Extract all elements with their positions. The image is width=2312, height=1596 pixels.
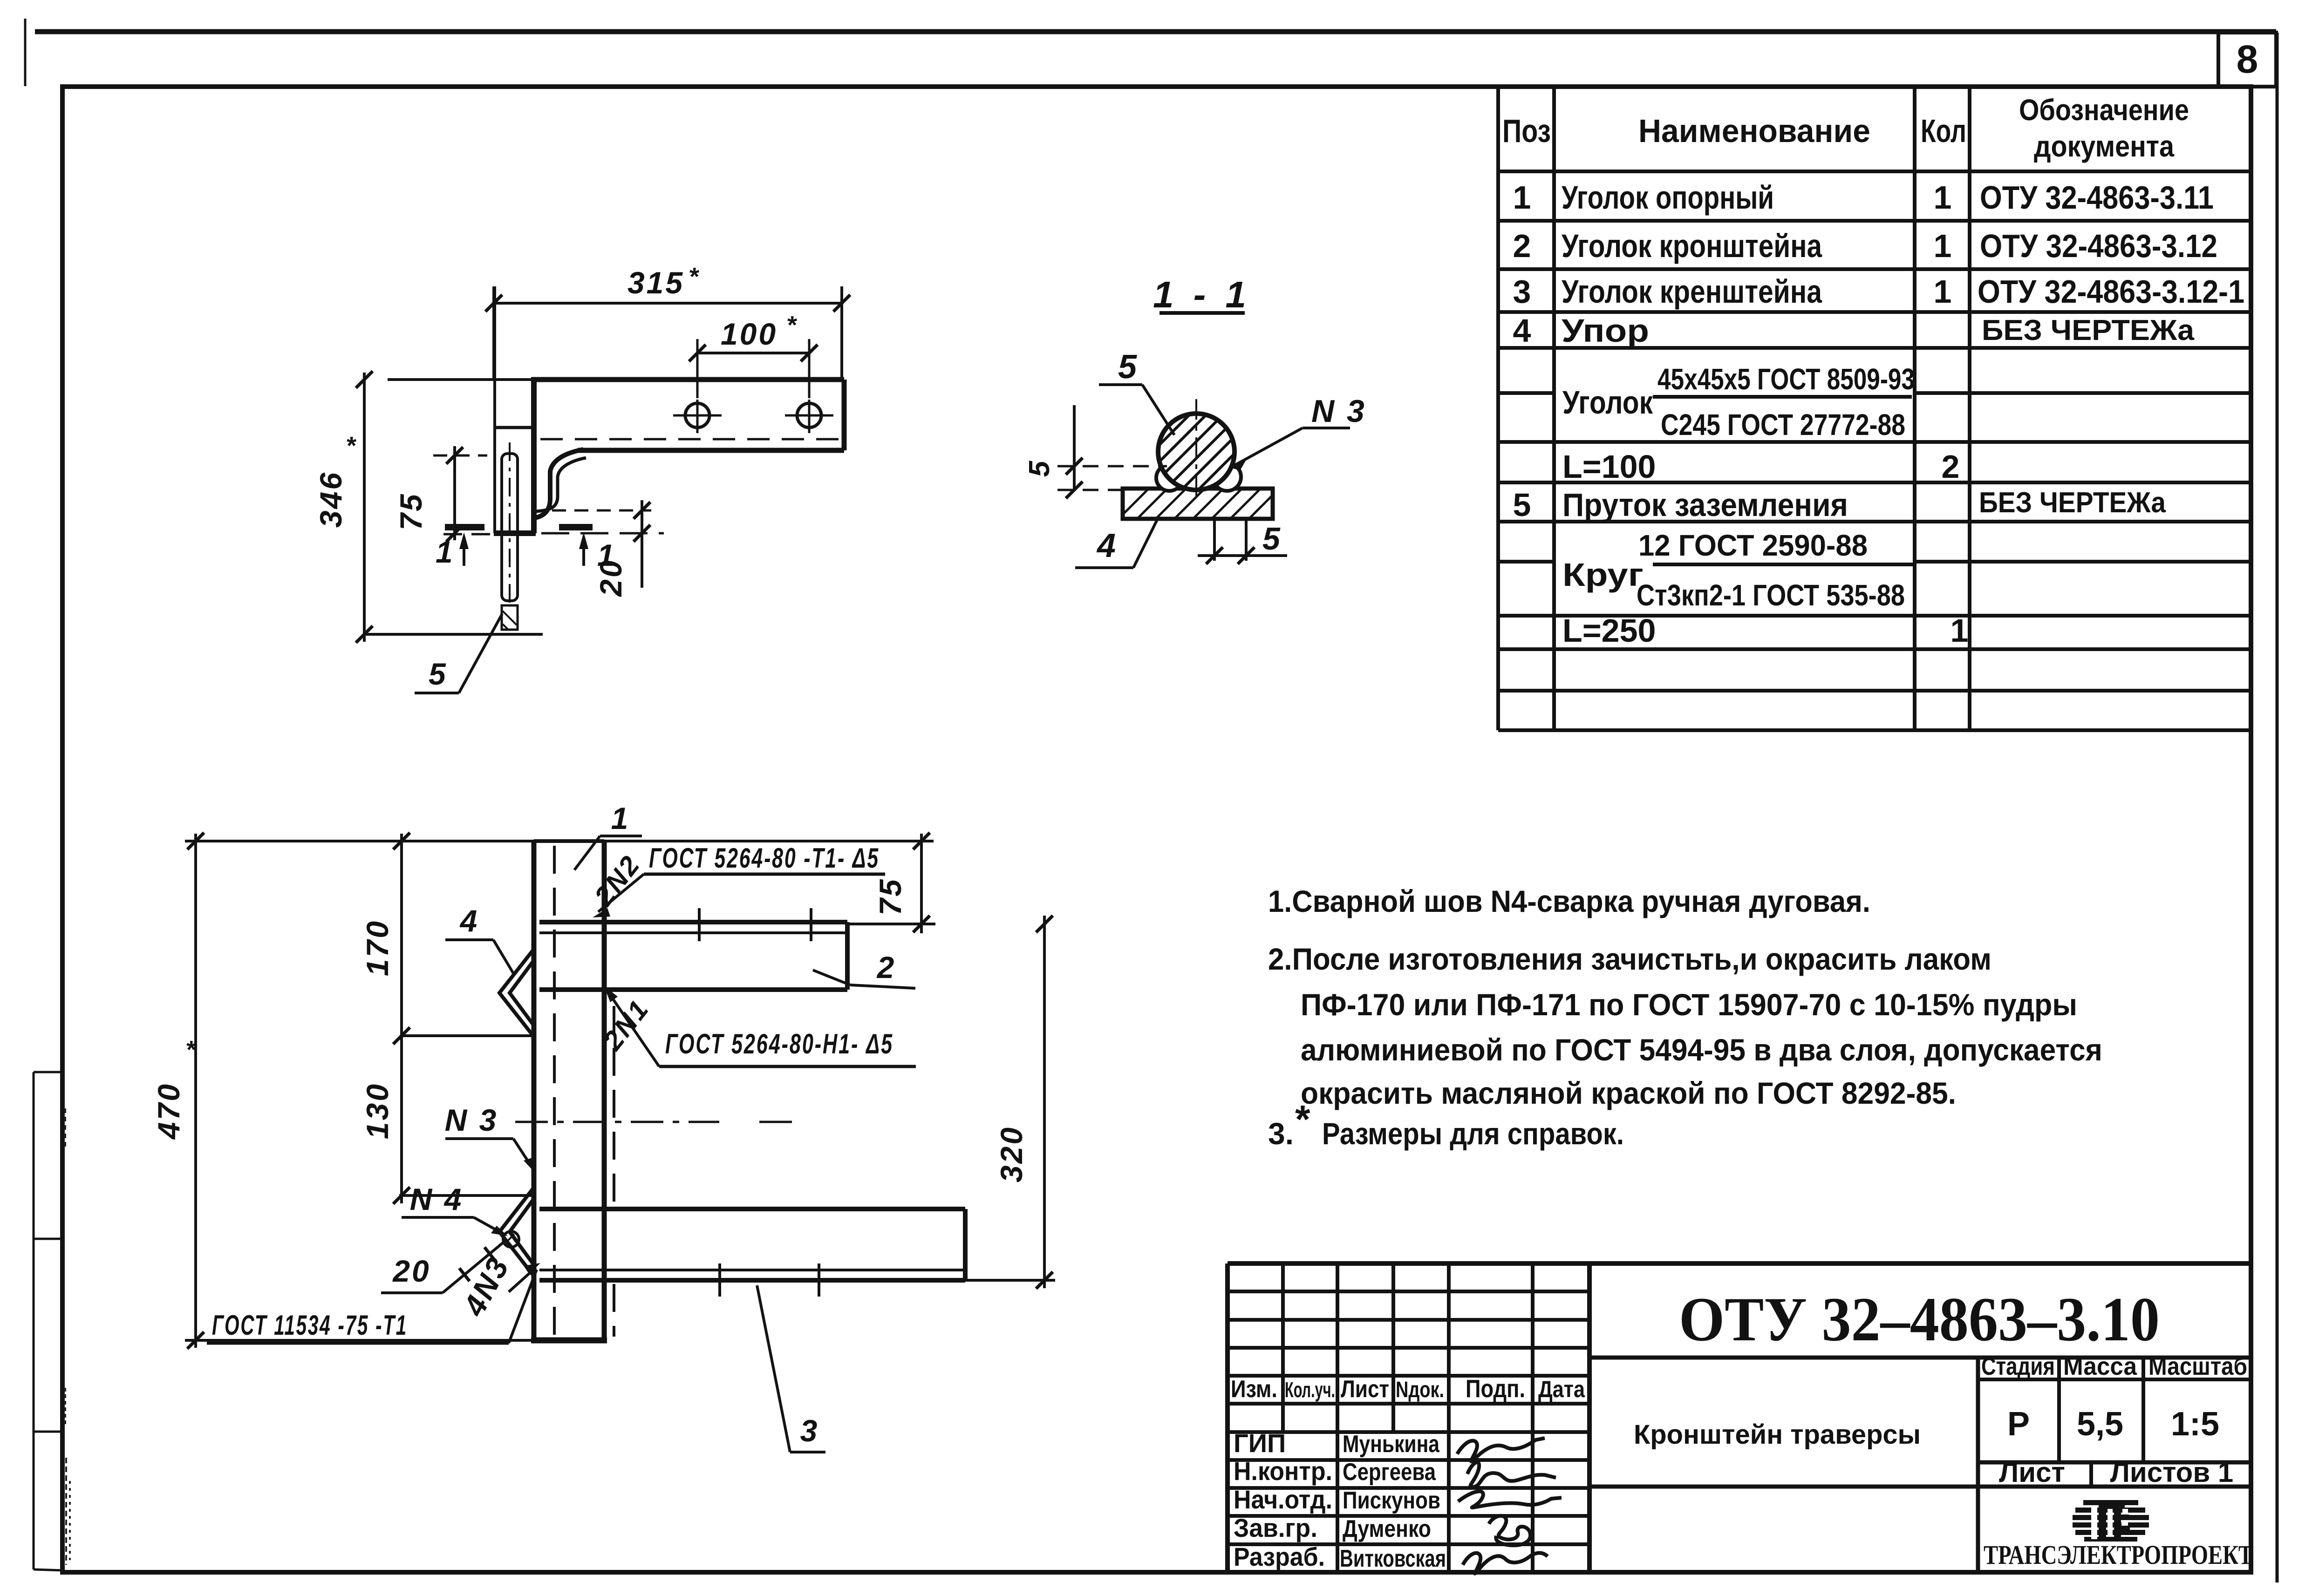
- svg-text:*: *: [1295, 1097, 1310, 1141]
- svg-text:Р: Р: [2007, 1406, 2030, 1443]
- svg-text:L=250: L=250: [1562, 612, 1656, 649]
- svg-text:4: 4: [1096, 527, 1118, 564]
- svg-text:Пруток заземления: Пруток заземления: [1562, 487, 1848, 523]
- svg-text:3.: 3.: [1268, 1116, 1294, 1151]
- svg-text:5: 5: [429, 657, 448, 691]
- svg-text:Ст3кп2-1 ГОСТ 535-88: Ст3кп2-1 ГОСТ 535-88: [1637, 578, 1905, 612]
- svg-text:ГОСТ 5264-80-Н1- Δ5: ГОСТ 5264-80-Н1- Δ5: [665, 1028, 893, 1059]
- svg-text:1: 1: [1934, 273, 1952, 310]
- svg-text:окрасить масляной краской по Г: окрасить масляной краской по ГОСТ 8292-8…: [1301, 1076, 1956, 1110]
- svg-text:75: 75: [873, 877, 907, 915]
- svg-text:1: 1: [1934, 179, 1952, 216]
- svg-text:20: 20: [392, 1254, 430, 1288]
- svg-text:320: 320: [994, 1126, 1029, 1182]
- svg-text:5,5: 5,5: [2077, 1406, 2123, 1443]
- svg-text:Мунькина: Мунькина: [1343, 1431, 1440, 1458]
- svg-text:470: 470: [151, 1082, 186, 1140]
- svg-text:1: 1: [436, 535, 455, 569]
- svg-text:*: *: [689, 263, 700, 291]
- svg-text:БЕЗ ЧЕРТЕЖа: БЕЗ ЧЕРТЕЖа: [1982, 314, 2195, 346]
- svg-text:Уголок кронштейна: Уголок кронштейна: [1562, 228, 1822, 264]
- svg-text:Уголок кренштейна: Уголок кренштейна: [1562, 273, 1822, 310]
- svg-text:2: 2: [876, 950, 896, 985]
- svg-text:ТРАНСЭЛЕКТРОПРОЕКТ: ТРАНСЭЛЕКТРОПРОЕКТ: [1984, 1540, 2253, 1570]
- svg-text:3: 3: [800, 1413, 819, 1448]
- svg-text:1: 1: [1951, 612, 1969, 649]
- svg-text:Зав.гр.: Зав.гр.: [1234, 1513, 1317, 1542]
- svg-text:ОТУ 32-4863-3.12: ОТУ 32-4863-3.12: [1980, 228, 2217, 264]
- svg-text:*: *: [346, 432, 357, 460]
- svg-text:Размеры для справок.: Размеры для справок.: [1322, 1116, 1624, 1151]
- svg-text:5: 5: [1513, 487, 1531, 523]
- svg-text:Кол: Кол: [1921, 113, 1966, 149]
- svg-text:1: 1: [611, 801, 630, 835]
- svg-text:документа: документа: [2034, 129, 2174, 163]
- svg-text:Масса: Масса: [2063, 1352, 2137, 1380]
- svg-text:Дата: Дата: [1538, 1376, 1585, 1402]
- svg-text:Обозначение: Обозначение: [2019, 93, 2189, 127]
- svg-text:5: 5: [1023, 459, 1056, 477]
- svg-text:346: 346: [314, 471, 348, 528]
- svg-text:Кол.уч.: Кол.уч.: [1285, 1378, 1335, 1402]
- svg-text:ОТУ 32-4863-3.12-1: ОТУ 32-4863-3.12-1: [1978, 273, 2244, 310]
- svg-text:Изм.: Изм.: [1231, 1376, 1277, 1403]
- svg-text:Листов 1: Листов 1: [2110, 1457, 2234, 1488]
- svg-text:Кронштейн траверсы: Кронштейн траверсы: [1634, 1419, 1921, 1450]
- svg-text:3: 3: [1513, 273, 1531, 310]
- svg-text:100: 100: [721, 317, 777, 351]
- svg-text:Подп.: Подп.: [1466, 1375, 1525, 1403]
- svg-text:5: 5: [1262, 521, 1282, 557]
- svg-text:4: 4: [459, 903, 479, 938]
- svg-text:Nдок.: Nдок.: [1396, 1378, 1444, 1402]
- svg-text:Упор: Упор: [1562, 312, 1649, 349]
- svg-text:Масштаб: Масштаб: [2148, 1352, 2247, 1380]
- svg-text:*: *: [786, 311, 798, 339]
- svg-text:75: 75: [394, 492, 428, 530]
- svg-text:1: 1: [597, 538, 616, 572]
- svg-text:2: 2: [1942, 448, 1960, 485]
- svg-text:Наименование: Наименование: [1638, 113, 1870, 149]
- svg-text:Нач.отд.: Нач.отд.: [1234, 1485, 1332, 1514]
- svg-text:Н.контр.: Н.контр.: [1234, 1456, 1332, 1486]
- svg-text:Лист: Лист: [1999, 1457, 2065, 1488]
- svg-text:Разраб.: Разраб.: [1234, 1542, 1325, 1571]
- svg-text:Уголок: Уголок: [1562, 384, 1653, 421]
- svg-text:45х45х5 ГОСТ 8509-93: 45х45х5 ГОСТ 8509-93: [1657, 362, 1915, 396]
- svg-text:1:5: 1:5: [2171, 1406, 2219, 1443]
- svg-text:N 3: N 3: [445, 1103, 498, 1137]
- svg-text:ОТУ 32-4863-3.11: ОТУ 32-4863-3.11: [1980, 179, 2214, 216]
- svg-text:Стадия: Стадия: [1981, 1352, 2055, 1380]
- svg-text:ГИП: ГИП: [1234, 1428, 1286, 1458]
- svg-text:L=100: L=100: [1562, 448, 1656, 485]
- svg-text:БЕЗ ЧЕРТЕЖа: БЕЗ ЧЕРТЕЖа: [1979, 487, 2166, 519]
- svg-text:Сергеева: Сергеева: [1343, 1459, 1436, 1486]
- svg-text:ПФ-170 или ПФ-171 по ГОСТ 1590: ПФ-170 или ПФ-171 по ГОСТ 15907-70 с 10-…: [1301, 987, 2077, 1022]
- svg-text:8: 8: [2237, 37, 2258, 81]
- svg-text:5: 5: [1118, 348, 1139, 386]
- svg-text:1.Сварной шов N4-сварка ручная: 1.Сварной шов N4-сварка ручная дуговая.: [1268, 884, 1870, 918]
- svg-text:4: 4: [1513, 312, 1531, 349]
- svg-text:N 3: N 3: [1311, 394, 1366, 429]
- svg-text:Думенко: Думенко: [1343, 1515, 1431, 1542]
- svg-text:130: 130: [360, 1082, 395, 1139]
- svg-text:Поз: Поз: [1502, 113, 1551, 149]
- svg-text:ГОСТ 5264-80 -Т1- Δ5: ГОСТ 5264-80 -Т1- Δ5: [649, 842, 880, 874]
- svg-text:1: 1: [1934, 228, 1952, 264]
- svg-text:Пискунов: Пискунов: [1343, 1487, 1440, 1514]
- svg-text:1: 1: [1513, 179, 1531, 216]
- svg-text:315: 315: [627, 265, 684, 300]
- svg-text:Круг: Круг: [1562, 557, 1644, 593]
- svg-text:1 - 1: 1 - 1: [1153, 274, 1251, 315]
- svg-text:ОТУ 32–4863–3.10: ОТУ 32–4863–3.10: [1679, 1285, 2160, 1354]
- svg-text:*: *: [185, 1036, 197, 1064]
- svg-text:170: 170: [360, 919, 395, 976]
- svg-text:N 4: N 4: [410, 1182, 464, 1216]
- svg-text:2: 2: [1513, 228, 1531, 264]
- svg-text:2.После изготовления зачистьть: 2.После изготовления зачистьть,и окрасит…: [1268, 942, 1991, 976]
- svg-text:Уголок опорный: Уголок опорный: [1562, 179, 1774, 216]
- svg-text:алюминиевой по ГОСТ 5494-95 в: алюминиевой по ГОСТ 5494-95 в два слоя, …: [1301, 1032, 2102, 1067]
- svg-text:Витковская: Витковская: [1340, 1545, 1446, 1572]
- svg-text:Лист: Лист: [1341, 1376, 1389, 1403]
- svg-text:С245 ГОСТ 27772-88: С245 ГОСТ 27772-88: [1661, 408, 1905, 441]
- svg-text:ГОСТ 11534 -75 -Т1: ГОСТ 11534 -75 -Т1: [212, 1310, 408, 1341]
- svg-text:12 ГОСТ 2590-88: 12 ГОСТ 2590-88: [1638, 529, 1868, 562]
